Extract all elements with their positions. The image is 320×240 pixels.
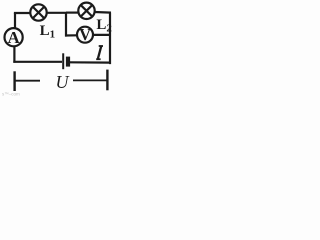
wire top-right segment <box>95 11 112 14</box>
voltage dimension left bar <box>13 71 15 91</box>
wire junction to L2 <box>66 12 79 14</box>
svg-text:U: U <box>56 72 70 92</box>
wire left vertical upper <box>14 13 16 29</box>
wire voltmeter branch vertical <box>65 13 67 37</box>
svg-text:L1: L1 <box>40 23 56 41</box>
ammeter A circle <box>5 28 23 46</box>
voltage dimension right bar <box>106 70 108 91</box>
wire bottom-left segment <box>13 61 62 63</box>
battery short thick plate <box>66 57 70 67</box>
voltage dimension line left <box>16 80 41 82</box>
svg-text:A: A <box>8 28 21 47</box>
wire right vertical <box>109 13 110 63</box>
wire bottom-right segment <box>70 61 111 63</box>
wire voltmeter branch horizontal <box>65 34 77 36</box>
battery long thin plate <box>62 53 64 69</box>
lamp L1 <box>30 4 46 20</box>
voltage dimension line right <box>73 79 107 81</box>
svg-text:V: V <box>79 25 91 44</box>
voltmeter V circle <box>77 27 93 43</box>
lamp L2 <box>78 3 94 19</box>
wire voltmeter to right wire <box>93 34 110 36</box>
label I current <box>96 46 103 59</box>
wire top-left segment <box>15 13 31 14</box>
wire left vertical lower <box>13 46 15 63</box>
svg-text:s™–com: s™–com <box>2 92 20 97</box>
wire between L1 and junction <box>47 12 67 14</box>
